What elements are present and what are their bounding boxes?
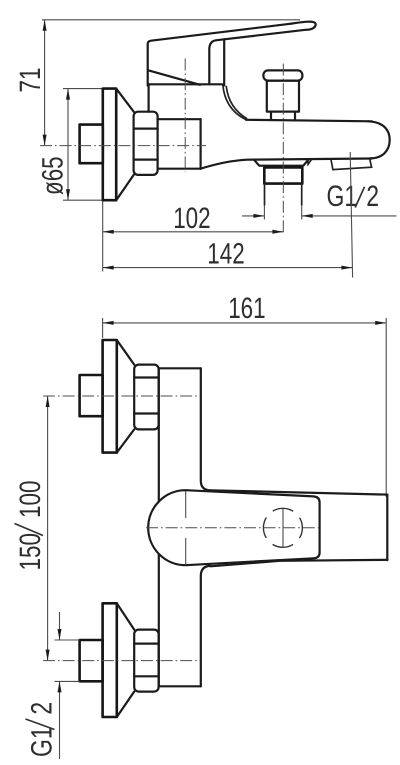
handle lever blade [148,22,316,86]
extension line spout outlet axis [350,152,352,278]
svg-text:71: 71 [14,68,47,93]
spout right capsule end [368,121,390,158]
hex nut (side view) [134,112,158,175]
wall escutcheon disc (side view) [103,89,116,201]
svg-text:142: 142 [207,238,244,271]
tub outlet G1/2 block [264,167,302,183]
svg-text:ø65: ø65 [37,156,70,195]
extension lines for G1/2 thread dim [264,205,301,220]
upper escutcheon disc (plan) [103,340,117,453]
diverter knob circle (plan) [263,508,302,547]
extension lines for dia65 [63,88,104,90]
svg-text:150: 150 [14,533,47,570]
lower cone (plan) [117,603,134,629]
lower escutcheon disc (plan) [103,603,117,717]
vertical centerline of cartridge [184,59,186,173]
svg-text:G1: G1 [26,726,59,757]
diverter knob neck [271,112,295,120]
G1/2 leader dimension lines [242,214,397,218]
handle arc vertical centerline [185,491,187,565]
tub outlet thread tube [265,184,302,205]
vertical centerline of diverter and tub outlet [282,64,284,235]
lower mount centerline [43,660,200,662]
extension line wall (102/142 dims) [102,202,104,272]
spout body top edge [246,120,372,122]
dome right fillet curves [223,86,246,120]
horizontal centerline of wall union [40,145,206,147]
dimension line 150/100 [46,396,50,661]
dimension line 161 [103,321,387,325]
diverter knob body [267,81,299,112]
spout (plan) [211,490,388,566]
supply pipe box (side view) [80,125,103,164]
dimension line 71 [43,20,47,146]
svg-text:2: 2 [26,702,59,715]
svg-text:2: 2 [366,180,379,213]
extension line wall left (161 dim) [102,318,104,338]
extension lines G1/2 supply dim [55,640,80,681]
cartridge dome housing [149,84,223,111]
handle blade (plan) [148,490,319,565]
valve body section between nut and seam [158,119,201,169]
lower hex nut (plan) [134,630,158,692]
svg-text:100: 100 [14,481,47,518]
dimension line 142 [103,266,353,270]
diverter knob cap [263,70,302,80]
upper supply box (plan) [80,375,103,416]
upper cone (plan) [117,340,134,365]
small tab under spout [308,159,312,164]
svg-text:G1: G1 [327,180,358,213]
diverter circle vertical centerline [282,509,284,549]
svg-text:102: 102 [173,202,210,235]
extension line spout tip (161 dim) [385,318,387,497]
upper mount centerline [43,395,200,397]
body slab (plan) [159,368,211,686]
tub outlet flange [254,159,309,165]
lower supply box (plan) [80,640,103,681]
dimension line 102 [103,230,284,234]
body bottom profile [201,159,372,169]
extension line top of handle (71 dim) [42,19,300,21]
dimension line dia65 [66,89,70,201]
plan view horizontal centerline [146,527,319,529]
svg-text:161: 161 [228,292,265,325]
cone of S-union (side view) [116,89,134,112]
upper hex nut (plan) [134,365,158,430]
G1/2 supply dimension arrows [58,612,62,759]
aerator plate under spout [331,159,372,170]
